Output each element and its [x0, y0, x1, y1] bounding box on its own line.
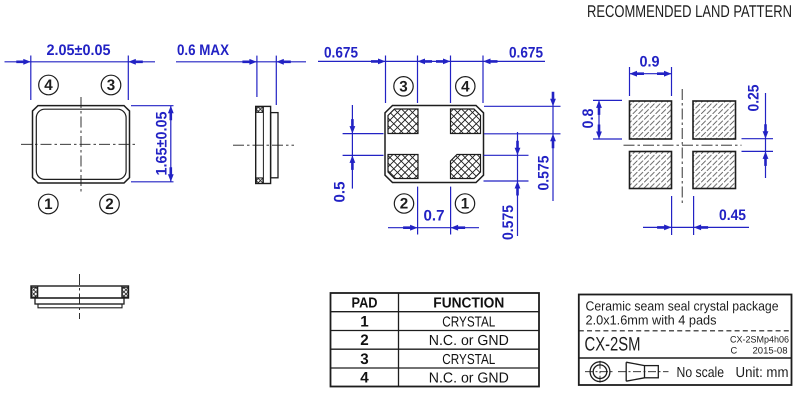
- svg-text:PAD: PAD: [352, 296, 378, 312]
- svg-text:0.7: 0.7: [424, 207, 445, 224]
- svg-text:4: 4: [360, 370, 369, 387]
- svg-text:4: 4: [44, 77, 53, 94]
- svg-text:Ceramic seam seal crystal pack: Ceramic seam seal crystal package: [586, 298, 779, 313]
- svg-text:Unit: mm: Unit: mm: [736, 365, 789, 381]
- svg-text:RECOMMENDED LAND PATTERN: RECOMMENDED LAND PATTERN: [587, 2, 792, 21]
- svg-text:2: 2: [400, 196, 408, 213]
- svg-text:1: 1: [461, 196, 470, 213]
- svg-text:2: 2: [360, 332, 368, 349]
- svg-text:N.C. or GND: N.C. or GND: [429, 333, 509, 349]
- svg-text:No scale: No scale: [677, 365, 725, 381]
- svg-text:CX-2SM: CX-2SM: [585, 333, 641, 355]
- svg-text:N.C. or GND: N.C. or GND: [429, 371, 509, 387]
- svg-text:0.25: 0.25: [746, 84, 763, 111]
- svg-text:0.8: 0.8: [580, 108, 597, 128]
- svg-text:3: 3: [360, 351, 368, 368]
- svg-text:0.6 MAX: 0.6 MAX: [177, 42, 230, 59]
- svg-text:1: 1: [360, 313, 369, 330]
- svg-text:CX-2SMp4h06: CX-2SMp4h06: [730, 334, 789, 344]
- svg-text:CRYSTAL: CRYSTAL: [442, 314, 495, 330]
- svg-text:2015-08: 2015-08: [753, 345, 788, 355]
- svg-text:2: 2: [105, 196, 113, 213]
- svg-text:0.5: 0.5: [332, 181, 349, 202]
- svg-text:4: 4: [461, 78, 470, 95]
- svg-text:1.65±0.05: 1.65±0.05: [154, 111, 171, 175]
- svg-text:0.575: 0.575: [536, 155, 553, 190]
- svg-text:3: 3: [107, 77, 115, 94]
- svg-text:1: 1: [44, 196, 53, 213]
- svg-text:FUNCTION: FUNCTION: [433, 296, 504, 312]
- svg-text:0.575: 0.575: [500, 205, 517, 240]
- svg-text:2.05±0.05: 2.05±0.05: [47, 42, 111, 59]
- svg-text:3: 3: [399, 78, 407, 95]
- svg-text:0.45: 0.45: [719, 207, 746, 224]
- svg-text:0.675: 0.675: [324, 45, 358, 62]
- svg-text:C: C: [731, 345, 738, 355]
- svg-text:2.0x1.6mm with 4 pads: 2.0x1.6mm with 4 pads: [586, 312, 717, 327]
- svg-text:CRYSTAL: CRYSTAL: [442, 352, 495, 368]
- svg-text:0.9: 0.9: [640, 53, 660, 70]
- svg-text:0.675: 0.675: [509, 45, 543, 62]
